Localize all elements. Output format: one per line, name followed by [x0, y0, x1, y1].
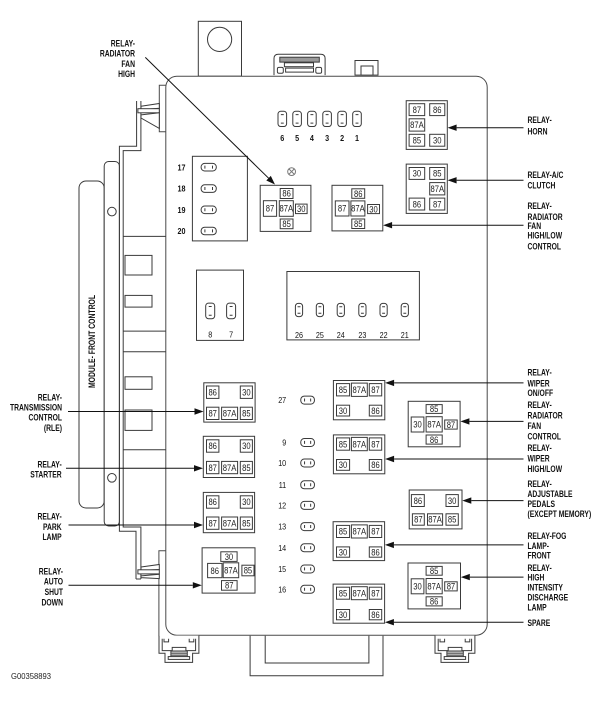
svg-text:25: 25 — [316, 330, 324, 340]
svg-text:30: 30 — [448, 496, 457, 506]
label: relay horn — [528, 115, 552, 136]
svg-text:9: 9 — [282, 438, 286, 448]
mounting foot (bottom left) — [159, 636, 199, 663]
relay block: transmission control (RLE) — [204, 383, 255, 422]
svg-text:WIPER: WIPER — [528, 454, 551, 464]
svg-text:85: 85 — [339, 439, 348, 449]
svg-text:85: 85 — [282, 219, 291, 229]
relay block: fog lamp front — [333, 522, 385, 561]
svg-text:85: 85 — [242, 463, 251, 473]
svg-text:87A: 87A — [223, 463, 237, 473]
svg-text:STARTER: STARTER — [30, 470, 62, 480]
svg-text:87A: 87A — [353, 588, 367, 598]
callout arrow: spare — [385, 619, 524, 625]
relay block: radiator fan control — [408, 401, 460, 447]
main fuse box outline — [166, 76, 487, 635]
svg-text:30: 30 — [339, 406, 348, 416]
svg-text:SHUT: SHUT — [45, 587, 64, 597]
svg-text:23: 23 — [358, 330, 366, 340]
svg-text:86: 86 — [371, 547, 380, 557]
label: relay park lamp — [38, 512, 63, 543]
svg-text:5: 5 — [295, 133, 299, 143]
svg-text:27: 27 — [278, 395, 286, 405]
svg-text:PEDALS: PEDALS — [528, 499, 556, 509]
svg-text:87A: 87A — [427, 420, 441, 430]
label: relay transmission control (RLE) — [10, 392, 62, 432]
svg-text:30: 30 — [369, 204, 378, 214]
callout arrow: radiator fan high/low control — [383, 222, 523, 228]
retaining clip (top) — [138, 104, 159, 129]
svg-text:30: 30 — [413, 169, 422, 179]
svg-text:85: 85 — [242, 409, 251, 419]
fuse row 1-6 — [278, 111, 361, 143]
svg-text:21: 21 — [401, 330, 409, 340]
svg-text:RELAY-: RELAY- — [528, 443, 552, 453]
svg-text:30: 30 — [413, 420, 422, 430]
mounting tab with hole (top) — [198, 21, 241, 76]
callout arrow: adjustable pedals — [462, 497, 523, 503]
relay block: radiator fan high — [260, 185, 311, 231]
module-front control connector: middle housing — [104, 162, 119, 527]
bottom center tab — [250, 636, 383, 676]
svg-text:RELAY-: RELAY- — [38, 459, 62, 469]
svg-text:TRANSMISSION: TRANSMISSION — [10, 403, 62, 413]
svg-text:LAMP-: LAMP- — [528, 541, 550, 551]
svg-text:85: 85 — [244, 566, 253, 576]
svg-text:86: 86 — [414, 496, 423, 506]
svg-text:12: 12 — [278, 501, 286, 511]
callout arrow: wiper high/low — [385, 456, 523, 462]
svg-text:2: 2 — [340, 133, 344, 143]
svg-text:87: 87 — [447, 420, 456, 430]
left mounting strip (top segment) — [159, 85, 166, 132]
svg-text:30: 30 — [433, 135, 442, 145]
svg-text:86: 86 — [208, 441, 217, 451]
svg-text:DOWN: DOWN — [42, 597, 64, 607]
svg-text:15: 15 — [278, 564, 286, 574]
callout arrow: park lamp — [69, 522, 204, 528]
svg-text:HIGH: HIGH — [118, 69, 135, 79]
svg-text:87A: 87A — [427, 581, 441, 591]
relay block: wiper high/low — [333, 435, 384, 474]
relay block: horn — [406, 101, 447, 150]
svg-text:1: 1 — [355, 133, 359, 143]
callout arrow: transmission control — [68, 408, 204, 414]
svg-text:30: 30 — [413, 582, 422, 592]
relay block: wiper on/off — [333, 381, 384, 420]
svg-text:3: 3 — [325, 133, 329, 143]
label: relay radiator fan high/low control — [528, 201, 564, 251]
svg-text:87: 87 — [413, 105, 422, 115]
relay block: high intensity discharge lamp — [408, 563, 461, 609]
svg-text:6: 6 — [280, 133, 284, 143]
svg-text:30: 30 — [242, 387, 251, 397]
svg-text:RELAY-: RELAY- — [528, 115, 552, 125]
svg-text:RELAY-: RELAY- — [528, 563, 552, 573]
svg-text:87: 87 — [371, 588, 380, 598]
relay block: spare — [333, 584, 385, 623]
svg-text:RELAY-: RELAY- — [38, 512, 62, 522]
svg-text:RELAY-: RELAY- — [528, 400, 552, 410]
svg-text:86: 86 — [371, 610, 380, 620]
rail teeth — [125, 255, 152, 430]
alignment hole (upper) — [108, 207, 117, 216]
svg-text:86: 86 — [430, 435, 439, 445]
svg-text:86: 86 — [282, 189, 291, 199]
callout arrow: radiator fan high — [145, 57, 275, 184]
svg-text:87A: 87A — [430, 184, 444, 194]
callout arrow: auto shut down — [69, 582, 202, 588]
svg-text:87A: 87A — [351, 204, 365, 214]
svg-text:HORN: HORN — [528, 126, 548, 136]
svg-text:87: 87 — [433, 199, 442, 209]
label: relay adjustable pedals — [528, 479, 592, 519]
keying symbol — [288, 168, 296, 176]
svg-text:RELAY-: RELAY- — [38, 392, 62, 402]
svg-text:86: 86 — [208, 387, 217, 397]
svg-text:85: 85 — [430, 404, 439, 414]
relay block: auto shut down — [202, 548, 255, 593]
svg-text:MODULE- FRONT CONTROL: MODULE- FRONT CONTROL — [87, 295, 97, 388]
svg-text:85: 85 — [339, 385, 348, 395]
svg-text:CONTROL: CONTROL — [528, 241, 562, 251]
svg-text:30: 30 — [297, 204, 306, 214]
label: relay wiper on/off — [528, 368, 554, 398]
top small connector — [355, 61, 378, 76]
svg-text:RADIATOR: RADIATOR — [528, 411, 564, 421]
svg-text:RADIATOR: RADIATOR — [100, 48, 136, 58]
label: relay high intensity discharge lamp — [528, 563, 569, 612]
svg-text:30: 30 — [339, 610, 348, 620]
svg-text:16: 16 — [278, 584, 286, 594]
svg-text:20: 20 — [178, 226, 186, 236]
svg-text:87: 87 — [225, 581, 234, 591]
svg-text:87: 87 — [371, 439, 380, 449]
svg-text:30: 30 — [242, 441, 251, 451]
svg-text:4: 4 — [310, 133, 314, 143]
svg-text:85: 85 — [433, 169, 442, 179]
svg-text:FAN: FAN — [121, 59, 135, 69]
top latch connector — [274, 54, 325, 75]
relay block: radiator fan high/low control — [332, 185, 383, 231]
svg-text:87: 87 — [414, 515, 423, 525]
svg-text:86: 86 — [413, 199, 422, 209]
svg-text:86: 86 — [371, 460, 380, 470]
svg-text:85: 85 — [430, 566, 439, 576]
fuse block 17-20 — [178, 156, 248, 241]
callout arrow: fog lamp front — [385, 542, 524, 548]
svg-text:7: 7 — [229, 330, 233, 340]
svg-text:86: 86 — [211, 566, 220, 576]
svg-text:85: 85 — [448, 515, 457, 525]
label: relay radiator fan control — [528, 400, 564, 442]
svg-text:FAN: FAN — [528, 421, 542, 431]
svg-text:87A: 87A — [353, 527, 367, 537]
svg-text:11: 11 — [279, 480, 287, 490]
center fuse column 27, 9-16 — [278, 395, 314, 594]
svg-text:RELAY-FOG: RELAY-FOG — [528, 531, 567, 541]
svg-text:HIGH: HIGH — [528, 573, 545, 583]
svg-text:87: 87 — [208, 518, 217, 528]
svg-text:87: 87 — [208, 463, 217, 473]
svg-text:HIGH/LOW: HIGH/LOW — [528, 231, 563, 241]
svg-text:14: 14 — [278, 543, 286, 553]
svg-text:87A: 87A — [353, 385, 367, 395]
svg-text:(EXCEPT MEMORY): (EXCEPT MEMORY) — [528, 509, 592, 519]
svg-text:87: 87 — [208, 409, 217, 419]
svg-text:87A: 87A — [353, 439, 367, 449]
svg-text:86: 86 — [433, 105, 442, 115]
label: relay a/c clutch — [528, 170, 564, 190]
label: spare — [528, 618, 551, 628]
svg-text:86: 86 — [208, 497, 217, 507]
svg-text:8: 8 — [208, 330, 212, 340]
svg-text:30: 30 — [339, 547, 348, 557]
svg-text:87: 87 — [371, 527, 380, 537]
svg-text:17: 17 — [178, 162, 186, 172]
svg-text:87A: 87A — [428, 515, 442, 525]
fuse block 8-7 — [197, 270, 244, 340]
svg-text:CONTROL: CONTROL — [29, 413, 63, 423]
svg-text:AUTO: AUTO — [44, 577, 63, 587]
svg-text:INTENSITY: INTENSITY — [528, 583, 563, 593]
svg-text:85: 85 — [242, 518, 251, 528]
svg-text:RELAY-A/C: RELAY-A/C — [528, 170, 564, 180]
svg-text:RELAY-: RELAY- — [39, 566, 63, 576]
svg-text:87A: 87A — [280, 204, 294, 214]
svg-text:85: 85 — [339, 588, 348, 598]
callout arrow: wiper on/off — [385, 380, 523, 386]
svg-text:87A: 87A — [223, 409, 237, 419]
svg-text:30: 30 — [339, 460, 348, 470]
svg-text:RELAY-: RELAY- — [528, 368, 552, 378]
label: relay radiator fan high — [100, 39, 136, 79]
svg-text:87: 87 — [447, 582, 456, 592]
callout arrow: horn — [448, 125, 524, 131]
svg-text:RELAY-: RELAY- — [528, 479, 552, 489]
svg-text:G00358893: G00358893 — [11, 671, 51, 681]
svg-text:85: 85 — [339, 527, 348, 537]
callout arrow: high intensity discharge lamp — [461, 574, 524, 580]
callout arrow: radiator fan control — [460, 418, 523, 424]
svg-text:87A: 87A — [224, 565, 238, 575]
svg-text:26: 26 — [295, 330, 303, 340]
svg-text:87: 87 — [266, 204, 275, 214]
label: relay starter — [30, 459, 62, 479]
svg-text:(RLE): (RLE) — [44, 423, 62, 433]
svg-text:ADJUSTABLE: ADJUSTABLE — [528, 489, 573, 499]
svg-text:HIGH/LOW: HIGH/LOW — [528, 464, 563, 474]
svg-text:86: 86 — [430, 597, 439, 607]
svg-text:CLUTCH: CLUTCH — [528, 180, 556, 190]
svg-text:CONTROL: CONTROL — [528, 431, 562, 441]
svg-text:87A: 87A — [223, 518, 237, 528]
callout arrow: starter — [66, 465, 203, 471]
svg-text:LAMP: LAMP — [528, 602, 547, 612]
svg-text:30: 30 — [242, 497, 251, 507]
svg-text:13: 13 — [278, 522, 286, 532]
svg-text:10: 10 — [278, 458, 286, 468]
svg-text:30: 30 — [225, 552, 234, 562]
svg-text:PARK: PARK — [43, 522, 62, 532]
svg-text:RELAY-: RELAY- — [528, 201, 552, 211]
svg-text:87: 87 — [371, 385, 380, 395]
relay block: starter — [203, 436, 254, 477]
svg-text:FRONT: FRONT — [528, 551, 552, 561]
side rail profile — [119, 101, 140, 579]
retaining clip (bottom) — [138, 565, 159, 579]
svg-text:DISCHARGE: DISCHARGE — [528, 592, 569, 602]
left mounting strip (bottom segment) — [159, 551, 166, 637]
relay block: a/c clutch — [406, 164, 447, 213]
relay block: park lamp — [203, 492, 254, 532]
relay block: adjustable pedals — [409, 490, 462, 529]
svg-text:86: 86 — [354, 189, 363, 199]
label: relay fog lamp front — [528, 531, 567, 561]
svg-text:19: 19 — [178, 205, 186, 215]
svg-text:24: 24 — [337, 330, 345, 340]
mounting foot (bottom right) — [435, 636, 475, 663]
svg-text:SPARE: SPARE — [528, 618, 551, 628]
rail cross bands — [123, 236, 166, 449]
callout arrow: a/c clutch — [448, 177, 524, 183]
svg-text:18: 18 — [178, 184, 186, 194]
svg-text:LAMP: LAMP — [43, 532, 62, 542]
svg-text:22: 22 — [380, 330, 388, 340]
fuse block 26-21 — [287, 272, 420, 341]
label: relay wiper high/low — [528, 443, 563, 474]
svg-text:RELAY-: RELAY- — [111, 39, 135, 49]
svg-text:ON/OFF: ON/OFF — [528, 388, 554, 398]
module-front control connector: outer housing — [79, 181, 104, 508]
svg-text:87: 87 — [338, 204, 347, 214]
svg-text:85: 85 — [354, 219, 363, 229]
svg-text:87A: 87A — [410, 120, 424, 130]
svg-text:85: 85 — [413, 135, 422, 145]
alignment hole (lower) — [108, 474, 117, 483]
label: relay auto shut down — [39, 566, 64, 607]
svg-text:86: 86 — [371, 406, 380, 416]
